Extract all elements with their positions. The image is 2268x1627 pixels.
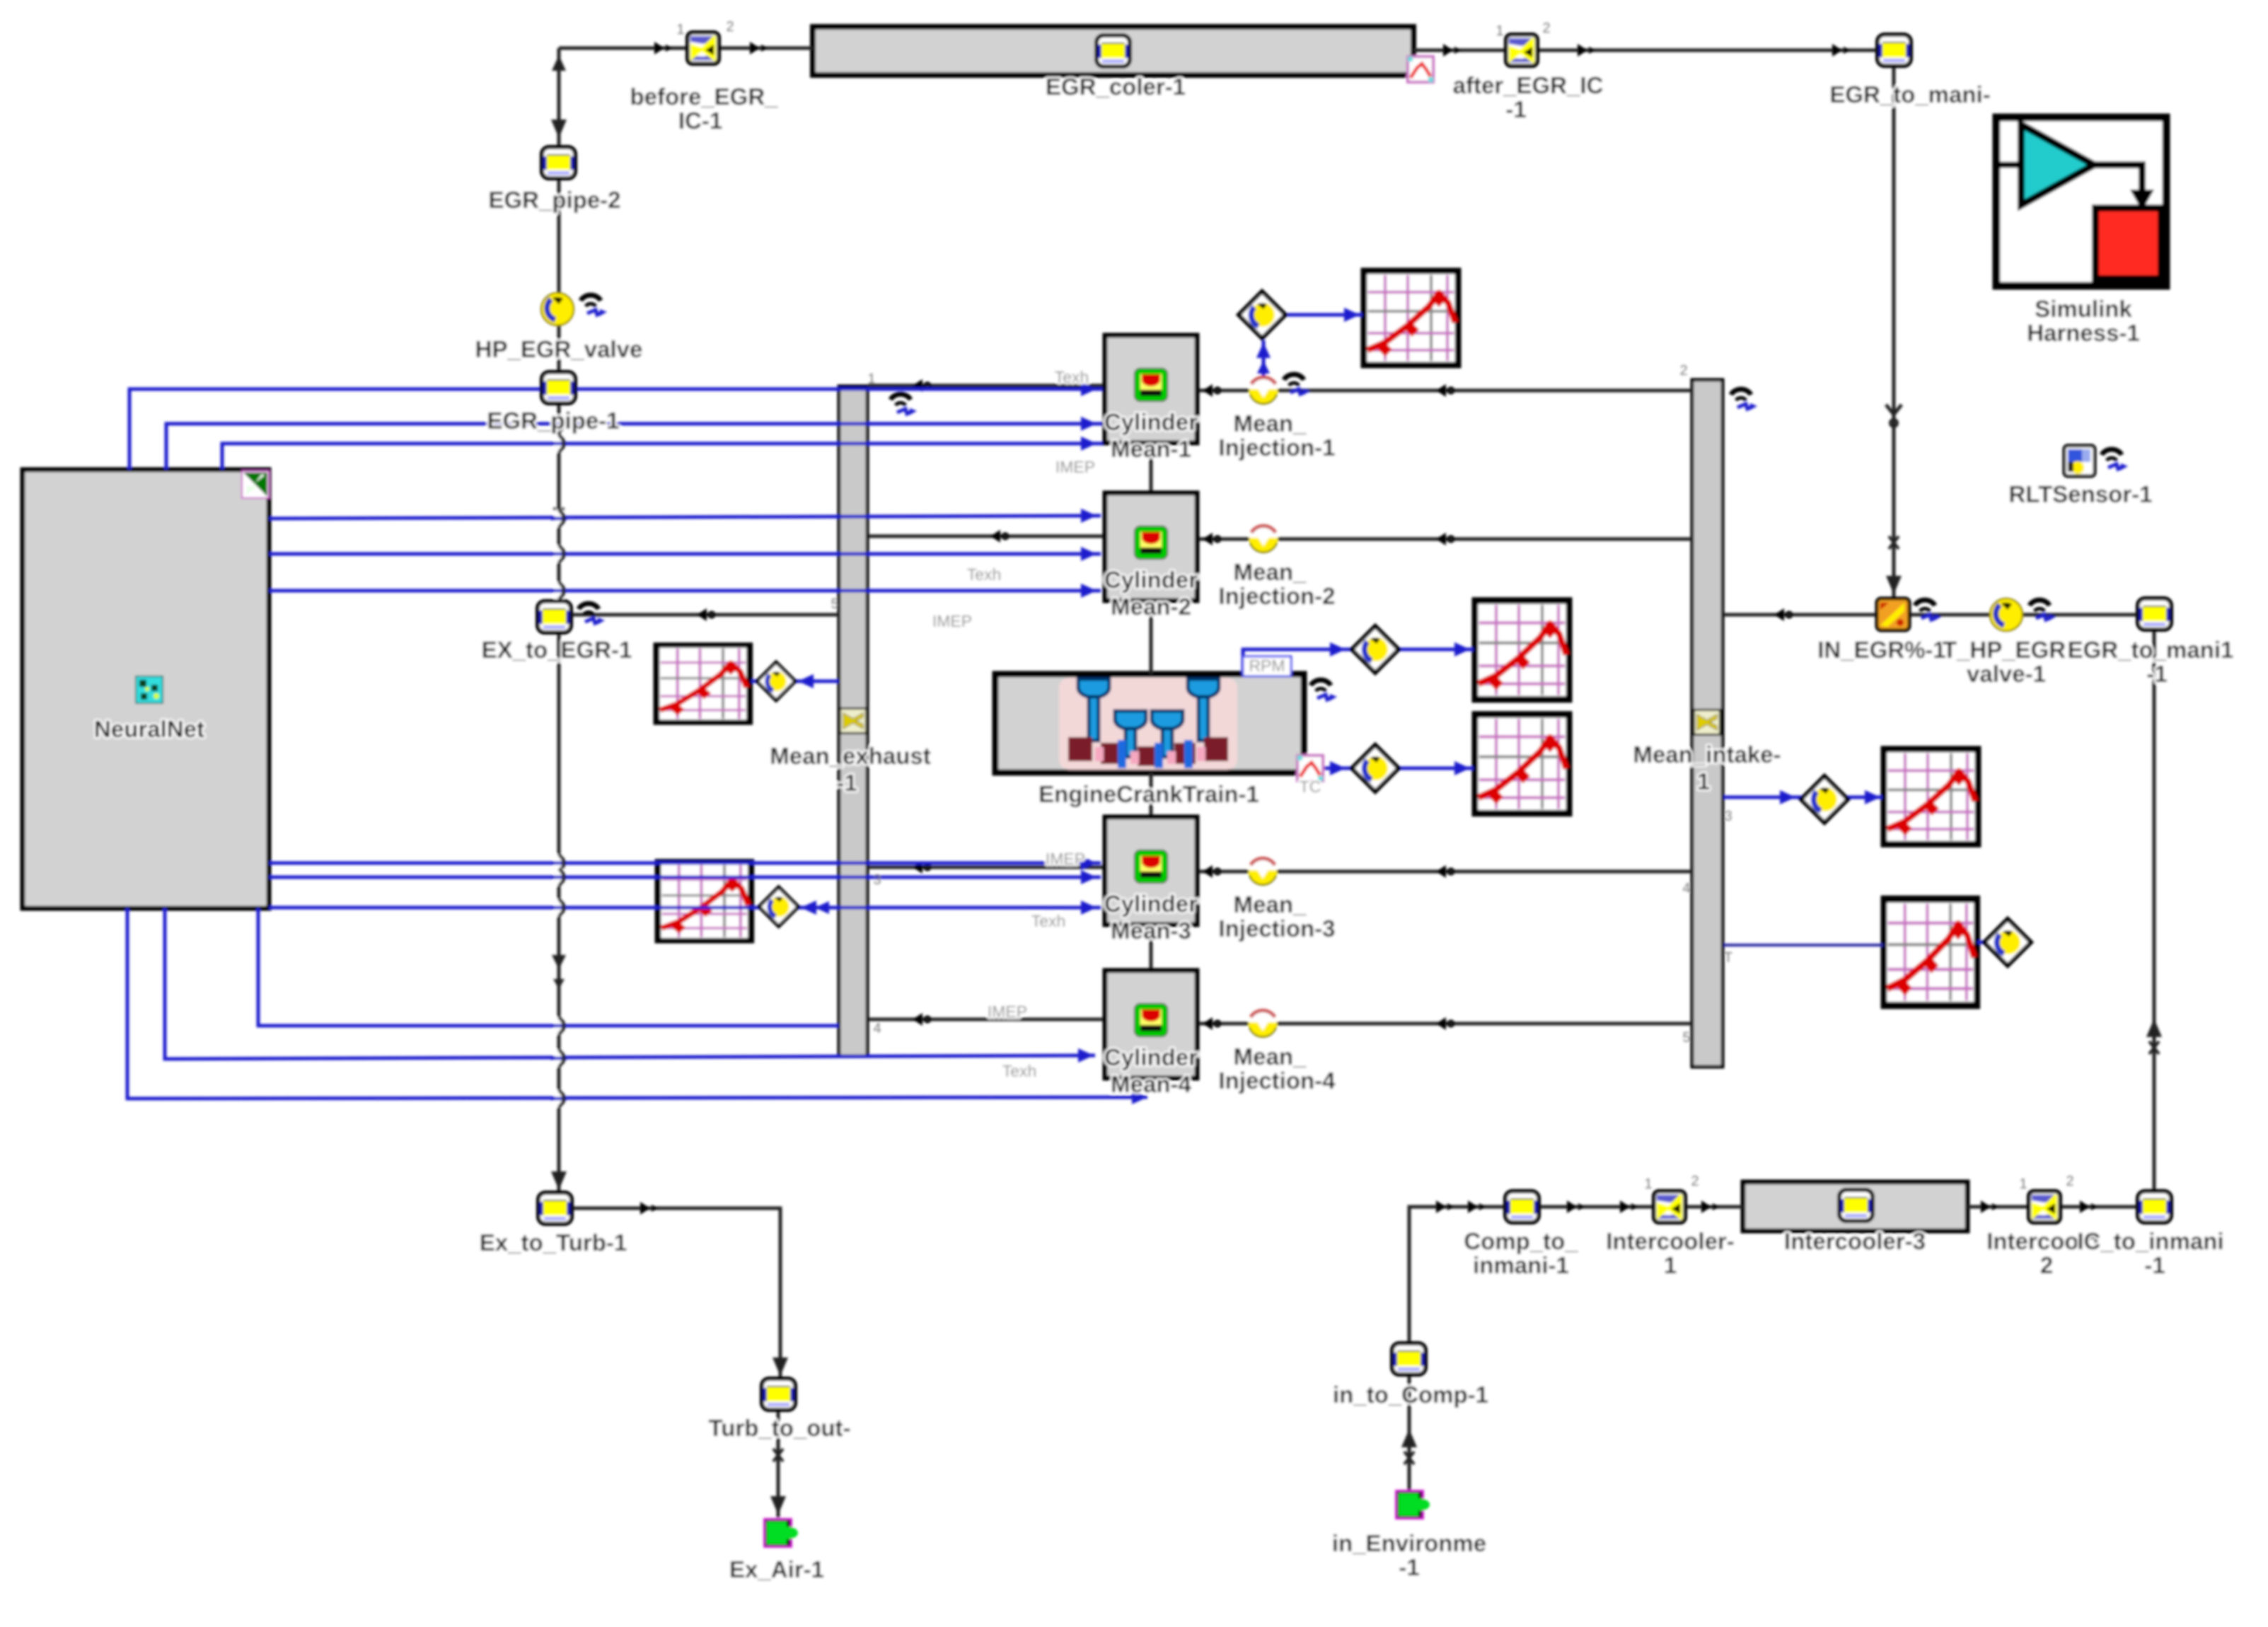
wire top-left horizontal to before_EGR_IC bbox=[559, 47, 688, 50]
before_EGR_IC-1 orifice bbox=[688, 33, 719, 64]
RLTSensor-1 icon bbox=[2064, 446, 2095, 476]
Cylinder Mean-4 block bbox=[1105, 971, 1197, 1078]
intake bar top signal bbox=[1731, 389, 1757, 410]
svg-text:Ex_Air-1: Ex_Air-1 bbox=[729, 1556, 824, 1582]
arrow up on right vertical bbox=[2146, 1019, 2162, 1037]
svg-text:IMEP: IMEP bbox=[1055, 458, 1095, 476]
EGR_pipe-2 pipe bbox=[542, 147, 575, 178]
svg-text:in_Environme: in_Environme bbox=[1332, 1530, 1486, 1556]
wire intake bar to diamond intake1 bbox=[1723, 796, 1803, 799]
svg-text:EGR_to_mani-: EGR_to_mani- bbox=[1829, 81, 1990, 108]
graph intake 1 bbox=[1884, 749, 1978, 844]
svg-text:TC: TC bbox=[1300, 777, 1321, 796]
svg-text:Simulink: Simulink bbox=[2035, 296, 2132, 322]
wire diamond row1 to graph bbox=[1288, 313, 1362, 317]
wire bar to cylinder exhaust row2 bbox=[868, 535, 1105, 538]
Intercooler-1 orifice bbox=[1654, 1191, 1685, 1222]
Cylinder Mean-2 block bbox=[1105, 493, 1197, 601]
svg-text:1: 1 bbox=[676, 22, 684, 37]
graph row1 top (Mean_Injection-1) bbox=[1364, 271, 1458, 365]
svg-text:3: 3 bbox=[873, 872, 881, 888]
wire NN bottom to row4 c bbox=[127, 908, 1147, 1099]
graph intake 2 bbox=[1884, 899, 1977, 1005]
svg-text:valve-1: valve-1 bbox=[1967, 661, 2046, 687]
arrow into Ex_Air bbox=[770, 1496, 786, 1515]
svg-text:Texh: Texh bbox=[967, 565, 1002, 584]
EGR_coler-1 pipe icon bbox=[1097, 35, 1130, 66]
svg-text:Cylinder: Cylinder bbox=[1104, 891, 1198, 917]
tiny port numbers bbox=[676, 19, 2073, 1192]
svg-text:2: 2 bbox=[2040, 1252, 2053, 1278]
Cylinder Mean-3 block bbox=[1105, 817, 1197, 925]
svg-text:IMEP: IMEP bbox=[1046, 850, 1085, 868]
arrows crank outs bbox=[1330, 642, 1346, 656]
arrows bottom chain bbox=[1436, 1200, 1454, 1213]
svg-text:before_EGR_: before_EGR_ bbox=[630, 83, 778, 110]
svg-text:EX_to_EGR-1: EX_to_EGR-1 bbox=[482, 637, 632, 663]
arrow down into EGR_pipe-2 bbox=[551, 120, 567, 138]
in_Environme-1 environment bbox=[1395, 1490, 1430, 1519]
wire before_EGR_IC to EGR_coler bbox=[720, 47, 813, 50]
Intercooler-2 orifice bbox=[2029, 1191, 2060, 1222]
wire row1 cylinder-injector-intake bbox=[1197, 389, 1249, 393]
svg-text:3: 3 bbox=[1724, 809, 1732, 824]
svg-text:1: 1 bbox=[2019, 1176, 2027, 1192]
svg-text:5: 5 bbox=[1682, 1030, 1690, 1046]
svg-text:Mean-3: Mean-3 bbox=[1111, 917, 1191, 944]
EngineCrankTrain signal squiggle bbox=[1311, 680, 1337, 701]
wire row2 bbox=[1197, 538, 1249, 541]
svg-text:IMEP: IMEP bbox=[988, 1002, 1027, 1021]
wire Ex_to_Turb right + down to Turb_to_out bbox=[571, 1208, 780, 1379]
wire crank RPM out bbox=[1243, 649, 1353, 674]
wire NN corner to diamond row3 and cyl3 bbox=[269, 906, 760, 910]
EGR_coler-1 plot-request icon bbox=[1408, 57, 1433, 82]
wire intake bar to IN_EGR chain bbox=[1723, 613, 1877, 617]
diamond sensor intake 1 bbox=[1801, 776, 1848, 823]
svg-text:2: 2 bbox=[1542, 21, 1550, 36]
svg-text:Cylinder: Cylinder bbox=[1104, 567, 1198, 593]
arrow into diamond row1-left bbox=[798, 674, 814, 688]
diamond sensor crank TC bbox=[1352, 745, 1399, 792]
Mean_Injection-2 circle bbox=[1249, 525, 1278, 553]
exhaust bar top signal bbox=[891, 394, 917, 415]
wire NN right to cyl2 c bbox=[269, 589, 1101, 593]
svg-text:4: 4 bbox=[873, 1021, 881, 1036]
Comp_to_inmani-1 pipe bbox=[1505, 1191, 1539, 1222]
svg-text:5: 5 bbox=[831, 596, 838, 612]
Ex_Air-1 environment bbox=[763, 1518, 798, 1548]
Cylinder Mean-1 block bbox=[1105, 335, 1197, 443]
svg-text:2: 2 bbox=[726, 19, 734, 35]
wire EGR_to_mani down to IN_EGR bbox=[1892, 66, 1896, 598]
IN_EGR%-1 icon bbox=[1877, 598, 1909, 630]
svg-text:RPM: RPM bbox=[1249, 656, 1285, 675]
wire hops on x=790 bbox=[551, 415, 567, 1107]
graph exhaust row3 bbox=[658, 862, 751, 941]
svg-text:Injection-2: Injection-2 bbox=[1218, 583, 1335, 609]
wire bar to cylinder exhaust row3 bbox=[868, 866, 1105, 869]
engine valves art bbox=[1078, 679, 1219, 757]
svg-text:HP_EGR_valve: HP_EGR_valve bbox=[475, 336, 643, 362]
Mean_exhaust-1 manifold bar bbox=[839, 386, 867, 1056]
arrows on EX_to_EGR wire pointing left bbox=[697, 608, 714, 621]
svg-text:Mean_exhaust: Mean_exhaust bbox=[770, 743, 930, 769]
NeuralNet center icon bbox=[136, 676, 163, 703]
arrow into graph row1 bbox=[1344, 308, 1360, 322]
arrow into Ex_to_Turb bbox=[551, 1171, 567, 1190]
Ex_to_Turb-1 pipe bbox=[538, 1193, 572, 1224]
svg-text:Mean_: Mean_ bbox=[1234, 559, 1307, 585]
wire right vertical EGR_to_mani1 to IC_to_inmani bbox=[2153, 630, 2156, 1190]
Mean_intake-1 manifold bar bbox=[1692, 380, 1723, 1067]
arrows on bar-cylinder exhaust wires pointing left bbox=[913, 379, 930, 392]
svg-text:T: T bbox=[1724, 950, 1732, 966]
arrow into graph row3-left bbox=[756, 901, 770, 915]
blue arrowheads bbox=[1081, 382, 1097, 396]
graph crank TC bbox=[1475, 714, 1569, 813]
svg-text:Mean_: Mean_ bbox=[1234, 410, 1307, 436]
svg-text:1: 1 bbox=[1664, 1252, 1677, 1278]
svg-text:IC-1: IC-1 bbox=[678, 108, 722, 134]
EX_to_EGR-1 pipe bbox=[538, 601, 571, 632]
svg-text:Harness-1: Harness-1 bbox=[2027, 320, 2140, 346]
svg-text:IC_to_inmani: IC_to_inmani bbox=[2077, 1228, 2223, 1254]
wire left vertical EGR chain bbox=[557, 48, 561, 147]
diamond sensor intake 2 bbox=[1984, 919, 2031, 966]
svg-text:-1: -1 bbox=[1399, 1554, 1419, 1580]
svg-text:Mean_intake-: Mean_intake- bbox=[1633, 741, 1781, 768]
arrows on cylinder rows (pointing left into cylinders) bbox=[1203, 384, 1220, 397]
wire Turb_to_out to Ex_Air bbox=[777, 1410, 780, 1517]
arrow down into EX area (mid chain marks) bbox=[554, 508, 564, 521]
arrow up into diamond row1 bbox=[1256, 342, 1271, 358]
svg-text:2: 2 bbox=[1679, 363, 1687, 378]
wire exhaust bar to diamond row1-left bbox=[794, 680, 839, 683]
svg-text:EGR_pipe-2: EGR_pipe-2 bbox=[488, 187, 620, 213]
svg-text:-1: -1 bbox=[1505, 96, 1526, 122]
wire EGR_coler to after_EGR_IC bbox=[1413, 49, 1506, 52]
Simulink Harness-1 block bbox=[1996, 117, 2166, 286]
wire bar to cylinder exhaust row1 bbox=[868, 384, 1105, 388]
svg-text:-1: -1 bbox=[2146, 661, 2167, 687]
wire EX_to_EGR to exhaust bar bbox=[571, 613, 839, 617]
svg-text:Mean-4: Mean-4 bbox=[1111, 1071, 1191, 1097]
wire bar to cylinder exhaust row4 bbox=[868, 1018, 1105, 1021]
wire NN bottom to row4 a bbox=[258, 908, 839, 1026]
wire row4 bbox=[1197, 1022, 1249, 1026]
wire NN bottom to row4 b bbox=[165, 908, 1095, 1059]
svg-text:Injection-4: Injection-4 bbox=[1218, 1067, 1336, 1094]
svg-text:-1: -1 bbox=[836, 770, 857, 796]
EGR_pipe-1 pipe bbox=[542, 372, 575, 403]
T_HP_EGR_valve-1 ball bbox=[1990, 598, 2023, 631]
arrow into Turb_to_out bbox=[773, 1357, 788, 1376]
Mean_Injection-3 circle bbox=[1249, 857, 1277, 886]
NeuralNet block bbox=[23, 470, 269, 908]
svg-text:NeuralNet: NeuralNet bbox=[94, 716, 204, 742]
small gray labels bbox=[932, 368, 1321, 1080]
svg-text:1: 1 bbox=[1495, 23, 1503, 39]
svg-text:Mean_: Mean_ bbox=[1234, 1043, 1307, 1070]
svg-text:Cylinder: Cylinder bbox=[1104, 409, 1198, 435]
Mean_exhaust-1 Y junction icon bbox=[839, 707, 867, 734]
wire injector1 up to diamond bbox=[1262, 340, 1266, 376]
svg-text:inmani-1: inmani-1 bbox=[1473, 1252, 1569, 1278]
svg-text:RLTSensor-1: RLTSensor-1 bbox=[2009, 481, 2153, 507]
arrow down into IN_EGR bbox=[1886, 576, 1902, 594]
svg-text:Injection-3: Injection-3 bbox=[1218, 915, 1335, 942]
wire NN top to cyl1 c bbox=[222, 444, 1105, 470]
Mean_Injection-1 circle bbox=[1249, 376, 1278, 405]
RPM label box bbox=[1243, 656, 1291, 676]
svg-text:EGR_coler-1: EGR_coler-1 bbox=[1046, 74, 1186, 100]
svg-text:in_to_Comp-1: in_to_Comp-1 bbox=[1333, 1382, 1488, 1408]
Intercooler-3 block bbox=[1743, 1182, 1967, 1231]
Mean_Injection-4 circle bbox=[1249, 1009, 1277, 1038]
HP_EGR_valve ball bbox=[541, 293, 574, 325]
arrow into diamond row3 (pointing left) bbox=[801, 901, 816, 915]
wire bottom intercooler chain bbox=[1409, 1207, 1505, 1343]
diamond sensor crank RPM bbox=[1352, 626, 1399, 673]
svg-text:after_EGR_IC: after_EGR_IC bbox=[1453, 72, 1604, 98]
Mean_intake-1 Y junction icon bbox=[1693, 709, 1721, 736]
Turb_to_out- pipe bbox=[762, 1379, 795, 1410]
svg-text:Texh: Texh bbox=[1055, 368, 1089, 386]
graph exhaust row1 bbox=[656, 645, 750, 722]
svg-text:Intercooler-: Intercooler- bbox=[1606, 1228, 1735, 1254]
wire NN right to cyl3 a bbox=[269, 862, 1101, 865]
svg-text:Mean-2: Mean-2 bbox=[1111, 594, 1191, 620]
svg-text:2: 2 bbox=[1691, 1174, 1699, 1189]
svg-text:Turb_to_out-: Turb_to_out- bbox=[708, 1415, 850, 1441]
svg-text:Texh: Texh bbox=[1002, 1062, 1037, 1080]
arrows on black wires bbox=[654, 42, 673, 54]
NeuralNet corner run icon bbox=[242, 471, 269, 498]
graph crank RPM bbox=[1475, 601, 1569, 700]
svg-text:Ex_to_Turb-1: Ex_to_Turb-1 bbox=[480, 1229, 627, 1256]
arrows intake diamond row bbox=[1780, 790, 1795, 804]
wire NN right to cyl3 b bbox=[269, 876, 1101, 879]
svg-text:Cylinder: Cylinder bbox=[1104, 1044, 1198, 1070]
svg-text:EGR_to_mani1: EGR_to_mani1 bbox=[2068, 637, 2234, 663]
arrow into diamond intake2 bbox=[1979, 935, 1995, 949]
IC_to_inmani-1 pipe bbox=[2138, 1191, 2171, 1222]
wire intake bar to graph intake2 (thin navy) bbox=[1723, 944, 1884, 946]
svg-text:Mean-1: Mean-1 bbox=[1111, 436, 1191, 462]
wire NN right to cyl2 b bbox=[269, 552, 1101, 556]
EngineCrankTrain-1 block bbox=[995, 674, 1304, 772]
after_EGR_IC-1 orifice bbox=[1506, 35, 1537, 66]
diamond sensor exhaust row1-left bbox=[757, 662, 795, 700]
wire NN top to cyl1 b bbox=[166, 424, 1105, 470]
arrow up on in_to_Comp vertical bbox=[1401, 1429, 1417, 1447]
svg-text:T_HP_EGR: T_HP_EGR bbox=[1943, 637, 2066, 663]
diamond sensor row1 (to graph above Mean_Injection-1) bbox=[1239, 291, 1285, 338]
wire cylinder chain verticals bbox=[1150, 443, 1153, 493]
svg-text:IMEP: IMEP bbox=[932, 612, 972, 630]
wire after_EGR_IC to EGR_to_mani bbox=[1539, 49, 1878, 52]
svg-text:1: 1 bbox=[1644, 1176, 1652, 1192]
svg-text:Mean_: Mean_ bbox=[1234, 891, 1307, 917]
EngineCrankTrain plot-request icon bbox=[1297, 755, 1323, 781]
svg-text:EGR_pipe-1: EGR_pipe-1 bbox=[487, 407, 619, 434]
svg-text:Comp_to_: Comp_to_ bbox=[1464, 1228, 1578, 1254]
wire row3 bbox=[1197, 870, 1249, 874]
wire NN right to cyl2 a bbox=[269, 516, 1101, 519]
wire diamond row1-left to graph bbox=[751, 680, 758, 683]
wire crank TC out bbox=[1324, 767, 1353, 770]
EGR_to_mani- pipe bbox=[1878, 35, 1911, 66]
svg-text:Texh: Texh bbox=[1031, 912, 1066, 930]
arrow up into top corner bbox=[552, 55, 566, 71]
svg-text:4: 4 bbox=[1682, 881, 1690, 896]
EGR_coler-1 long block bbox=[813, 27, 1413, 75]
arrows intake top chain pointing left bbox=[1774, 608, 1792, 621]
svg-text:IN_EGR%-1: IN_EGR%-1 bbox=[1817, 637, 1946, 663]
diamond sensor exhaust row3-left bbox=[759, 887, 798, 926]
in_to_Comp-1 pipe bbox=[1392, 1343, 1425, 1374]
EGR_to_mani1-1 pipe bbox=[2138, 598, 2171, 630]
svg-text:1: 1 bbox=[867, 371, 875, 387]
svg-text:2: 2 bbox=[2066, 1174, 2073, 1189]
Intercooler-3 pipe icon bbox=[1839, 1190, 1873, 1221]
svg-text:EngineCrankTrain-1: EngineCrankTrain-1 bbox=[1038, 781, 1259, 807]
svg-text:Intercooler-3: Intercooler-3 bbox=[1784, 1228, 1926, 1254]
svg-text:Injection-1: Injection-1 bbox=[1218, 434, 1335, 461]
svg-text:-1: -1 bbox=[2144, 1252, 2165, 1278]
wire in_to_Comp down to environment bbox=[1408, 1374, 1411, 1490]
wire NN top to cyl1 Texh bbox=[129, 389, 1105, 470]
svg-text:1: 1 bbox=[1697, 768, 1710, 794]
